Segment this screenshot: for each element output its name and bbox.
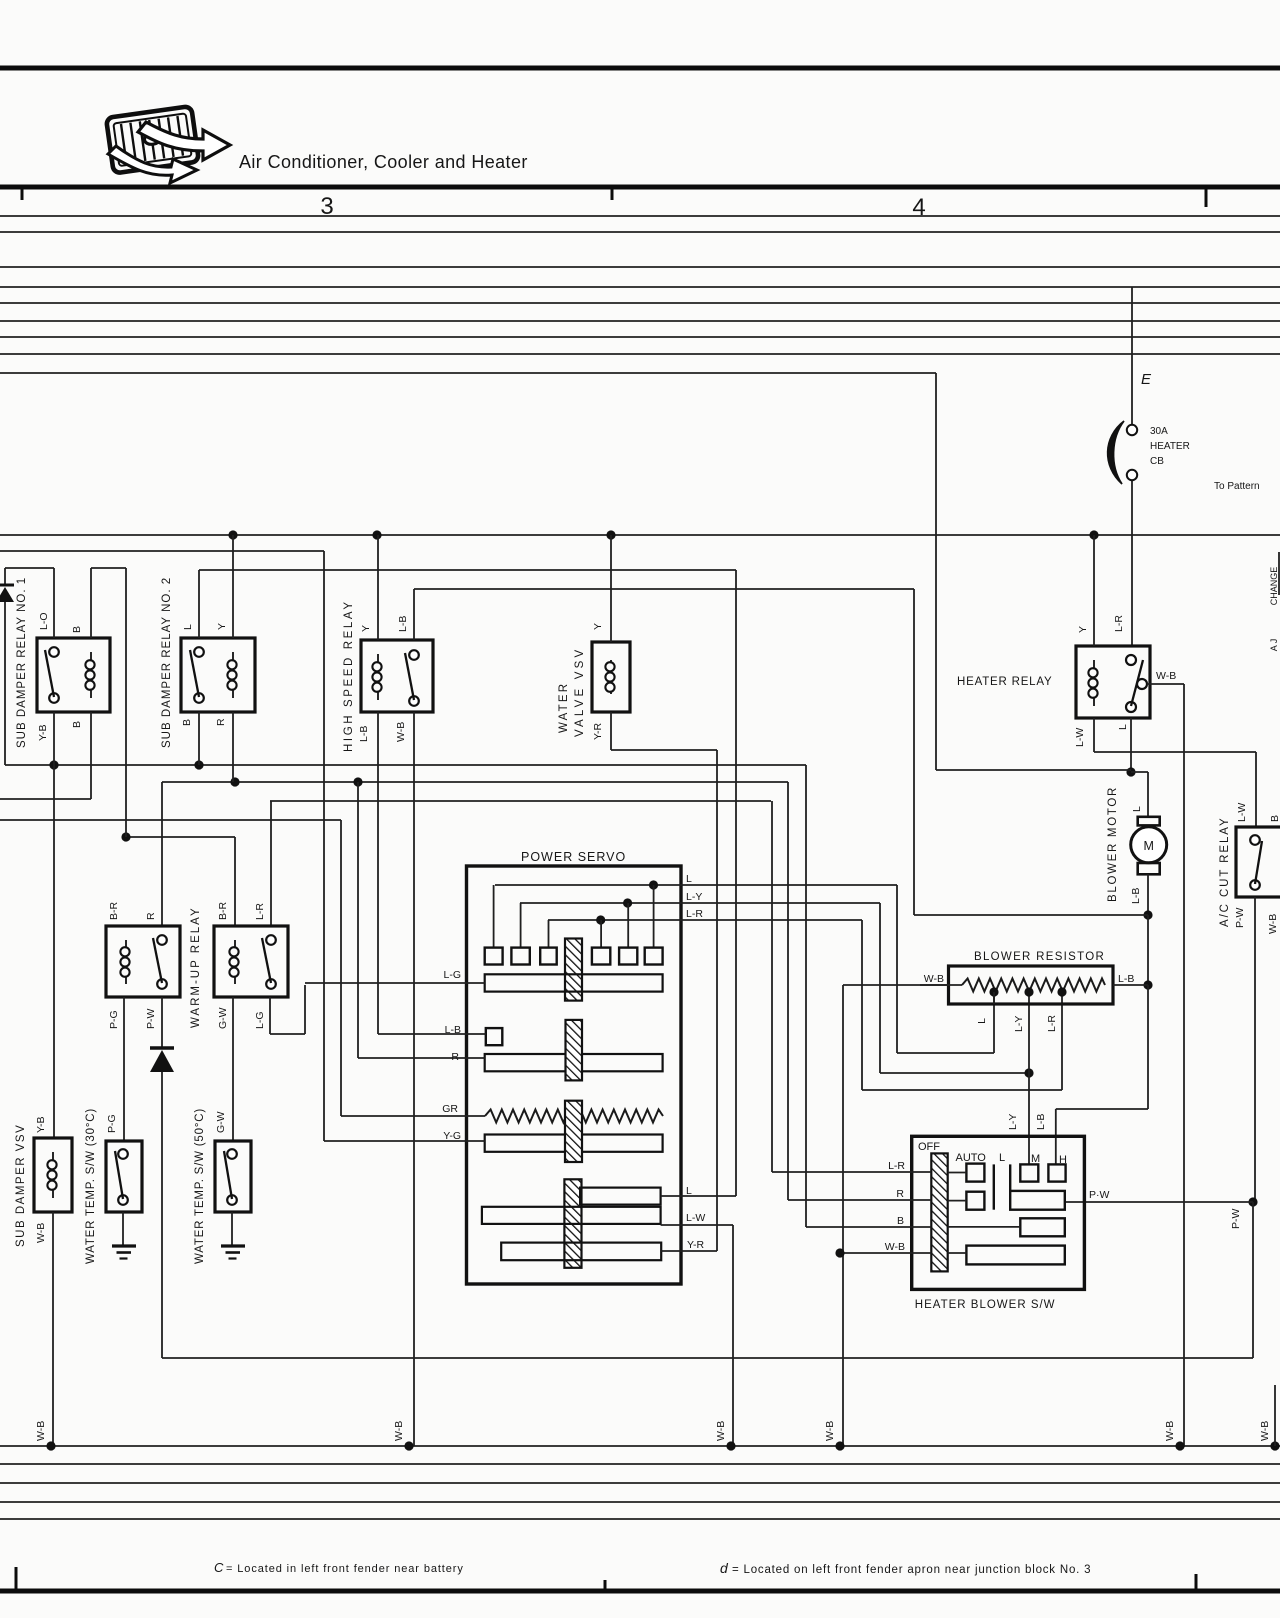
- svg-text:VALVE VSV: VALVE VSV: [574, 647, 586, 737]
- svg-text:B-R: B-R: [217, 902, 229, 921]
- svg-text:L: L: [686, 873, 692, 885]
- svg-text:L-Y: L-Y: [1013, 1016, 1025, 1032]
- svg-text:= Located on left front fende: = Located on left front fender apron nea…: [732, 1564, 1091, 1576]
- svg-text:R: R: [215, 718, 227, 726]
- svg-text:B: B: [1269, 815, 1280, 822]
- svg-text:WATER: WATER: [558, 682, 570, 733]
- svg-text:L-R: L-R: [888, 1160, 905, 1172]
- svg-text:Y-B: Y-B: [35, 1116, 47, 1133]
- svg-text:Y: Y: [360, 625, 372, 632]
- svg-text:W-B: W-B: [393, 1421, 405, 1441]
- svg-text:L-B: L-B: [1035, 1114, 1047, 1130]
- svg-text:L-R: L-R: [686, 908, 703, 920]
- svg-text:L: L: [182, 624, 194, 630]
- svg-text:G-W: G-W: [215, 1111, 227, 1133]
- svg-text:AUTO: AUTO: [956, 1152, 987, 1164]
- svg-text:Y-R: Y-R: [592, 722, 604, 740]
- svg-text:W-B: W-B: [35, 1223, 47, 1243]
- svg-text:L-G: L-G: [254, 1011, 266, 1029]
- svg-text:W-B: W-B: [35, 1421, 47, 1441]
- svg-text:L: L: [1131, 806, 1143, 812]
- svg-text:POWER SERVO: POWER SERVO: [521, 850, 626, 864]
- svg-text:W-B: W-B: [1267, 914, 1279, 934]
- svg-text:R: R: [451, 1051, 459, 1063]
- svg-text:P-G: P-G: [106, 1114, 118, 1133]
- svg-text:L-B: L-B: [445, 1024, 461, 1036]
- svg-text:Air Conditioner, Cooler and He: Air Conditioner, Cooler and Heater: [239, 152, 528, 172]
- svg-text:L-W: L-W: [1236, 803, 1248, 822]
- svg-text:L-R: L-R: [1113, 615, 1125, 632]
- svg-text:W-B: W-B: [715, 1421, 727, 1441]
- svg-text:d: d: [720, 1560, 729, 1576]
- svg-text:BLOWER MOTOR: BLOWER MOTOR: [1107, 786, 1119, 902]
- svg-text:GR: GR: [442, 1103, 458, 1115]
- svg-text:W-B: W-B: [824, 1421, 836, 1441]
- svg-text:OFF: OFF: [918, 1141, 940, 1153]
- svg-text:Y: Y: [1077, 626, 1089, 633]
- svg-text:CHANGE: CHANGE: [1269, 567, 1279, 606]
- svg-text:4: 4: [912, 194, 925, 221]
- svg-text:BLOWER RESISTOR: BLOWER RESISTOR: [974, 951, 1105, 963]
- svg-text:SUB DAMPER RELAY NO. 1: SUB DAMPER RELAY NO. 1: [16, 577, 28, 748]
- svg-text:WATER TEMP. S/W (50°C): WATER TEMP. S/W (50°C): [194, 1108, 206, 1264]
- svg-text:SUB DAMPER RELAY NO. 2: SUB DAMPER RELAY NO. 2: [161, 577, 173, 748]
- svg-text:L-R: L-R: [1046, 1015, 1058, 1032]
- svg-text:Y-G: Y-G: [443, 1130, 461, 1142]
- svg-text:W-B: W-B: [1164, 1421, 1176, 1441]
- svg-text:Y-B: Y-B: [37, 724, 49, 741]
- svg-text:HIGH SPEED RELAY: HIGH SPEED RELAY: [343, 599, 355, 752]
- svg-text:L: L: [1117, 724, 1129, 730]
- svg-text:W-B: W-B: [1259, 1421, 1271, 1441]
- svg-text:30A: 30A: [1150, 426, 1168, 437]
- svg-text:L-G: L-G: [443, 969, 461, 981]
- svg-text:L-R: L-R: [254, 903, 266, 920]
- svg-text:L-B: L-B: [397, 616, 409, 632]
- svg-text:M: M: [1143, 839, 1153, 853]
- svg-text:L-B: L-B: [1130, 888, 1142, 904]
- svg-text:HEATER: HEATER: [1150, 441, 1190, 452]
- svg-text:HEATER BLOWER S/W: HEATER BLOWER S/W: [915, 1299, 1056, 1311]
- svg-text:WATER TEMP. S/W (30°C): WATER TEMP. S/W (30°C): [85, 1108, 97, 1264]
- svg-text:CB: CB: [1150, 456, 1164, 467]
- svg-text:W-B: W-B: [885, 1241, 905, 1253]
- svg-text:P-W: P-W: [1230, 1209, 1242, 1230]
- svg-text:R: R: [896, 1188, 904, 1200]
- svg-text:Y: Y: [216, 623, 228, 630]
- svg-text:W-B: W-B: [924, 973, 944, 985]
- svg-text:E: E: [1141, 371, 1152, 388]
- svg-text:P-W: P-W: [145, 1009, 157, 1030]
- svg-text:L-B: L-B: [1118, 973, 1134, 985]
- svg-text:M: M: [1031, 1153, 1040, 1165]
- svg-text:C: C: [214, 1560, 224, 1575]
- svg-text:G-W: G-W: [217, 1007, 229, 1029]
- svg-text:B: B: [71, 626, 83, 633]
- svg-text:To Pattern: To Pattern: [1214, 481, 1260, 492]
- svg-text:SUB DAMPER VSV: SUB DAMPER VSV: [15, 1124, 27, 1247]
- svg-text:L: L: [999, 1152, 1005, 1164]
- svg-text:L: L: [686, 1185, 692, 1197]
- svg-text:L-Y: L-Y: [686, 891, 702, 903]
- svg-text:L-W: L-W: [1074, 728, 1086, 747]
- svg-text:L-B: L-B: [358, 726, 370, 742]
- svg-text:HEATER RELAY: HEATER RELAY: [957, 676, 1052, 688]
- svg-text:A/C CUT RELAY: A/C CUT RELAY: [1219, 816, 1231, 927]
- svg-text:Y: Y: [592, 623, 604, 630]
- svg-text:A J: A J: [1269, 639, 1279, 652]
- svg-text:L-Y: L-Y: [1007, 1114, 1019, 1130]
- svg-text:L-O: L-O: [38, 612, 50, 630]
- svg-text:P·W: P·W: [1089, 1189, 1110, 1201]
- svg-text:P-W: P-W: [1234, 908, 1246, 929]
- svg-text:W-B: W-B: [1156, 670, 1176, 682]
- svg-text:B: B: [897, 1215, 904, 1227]
- svg-text:W-B: W-B: [395, 722, 407, 742]
- svg-text:Y-R: Y-R: [687, 1239, 705, 1251]
- svg-text:B: B: [181, 719, 193, 726]
- svg-text:WARM-UP RELAY: WARM-UP RELAY: [190, 906, 202, 1028]
- svg-text:L: L: [976, 1018, 988, 1024]
- svg-text:P-G: P-G: [108, 1010, 120, 1029]
- svg-text:L-W: L-W: [686, 1212, 705, 1224]
- svg-text:= Located in left front fende: = Located in left front fender near batt…: [226, 1563, 464, 1575]
- svg-text:R: R: [145, 912, 157, 920]
- svg-text:B: B: [71, 721, 83, 728]
- svg-text:B-R: B-R: [108, 902, 120, 921]
